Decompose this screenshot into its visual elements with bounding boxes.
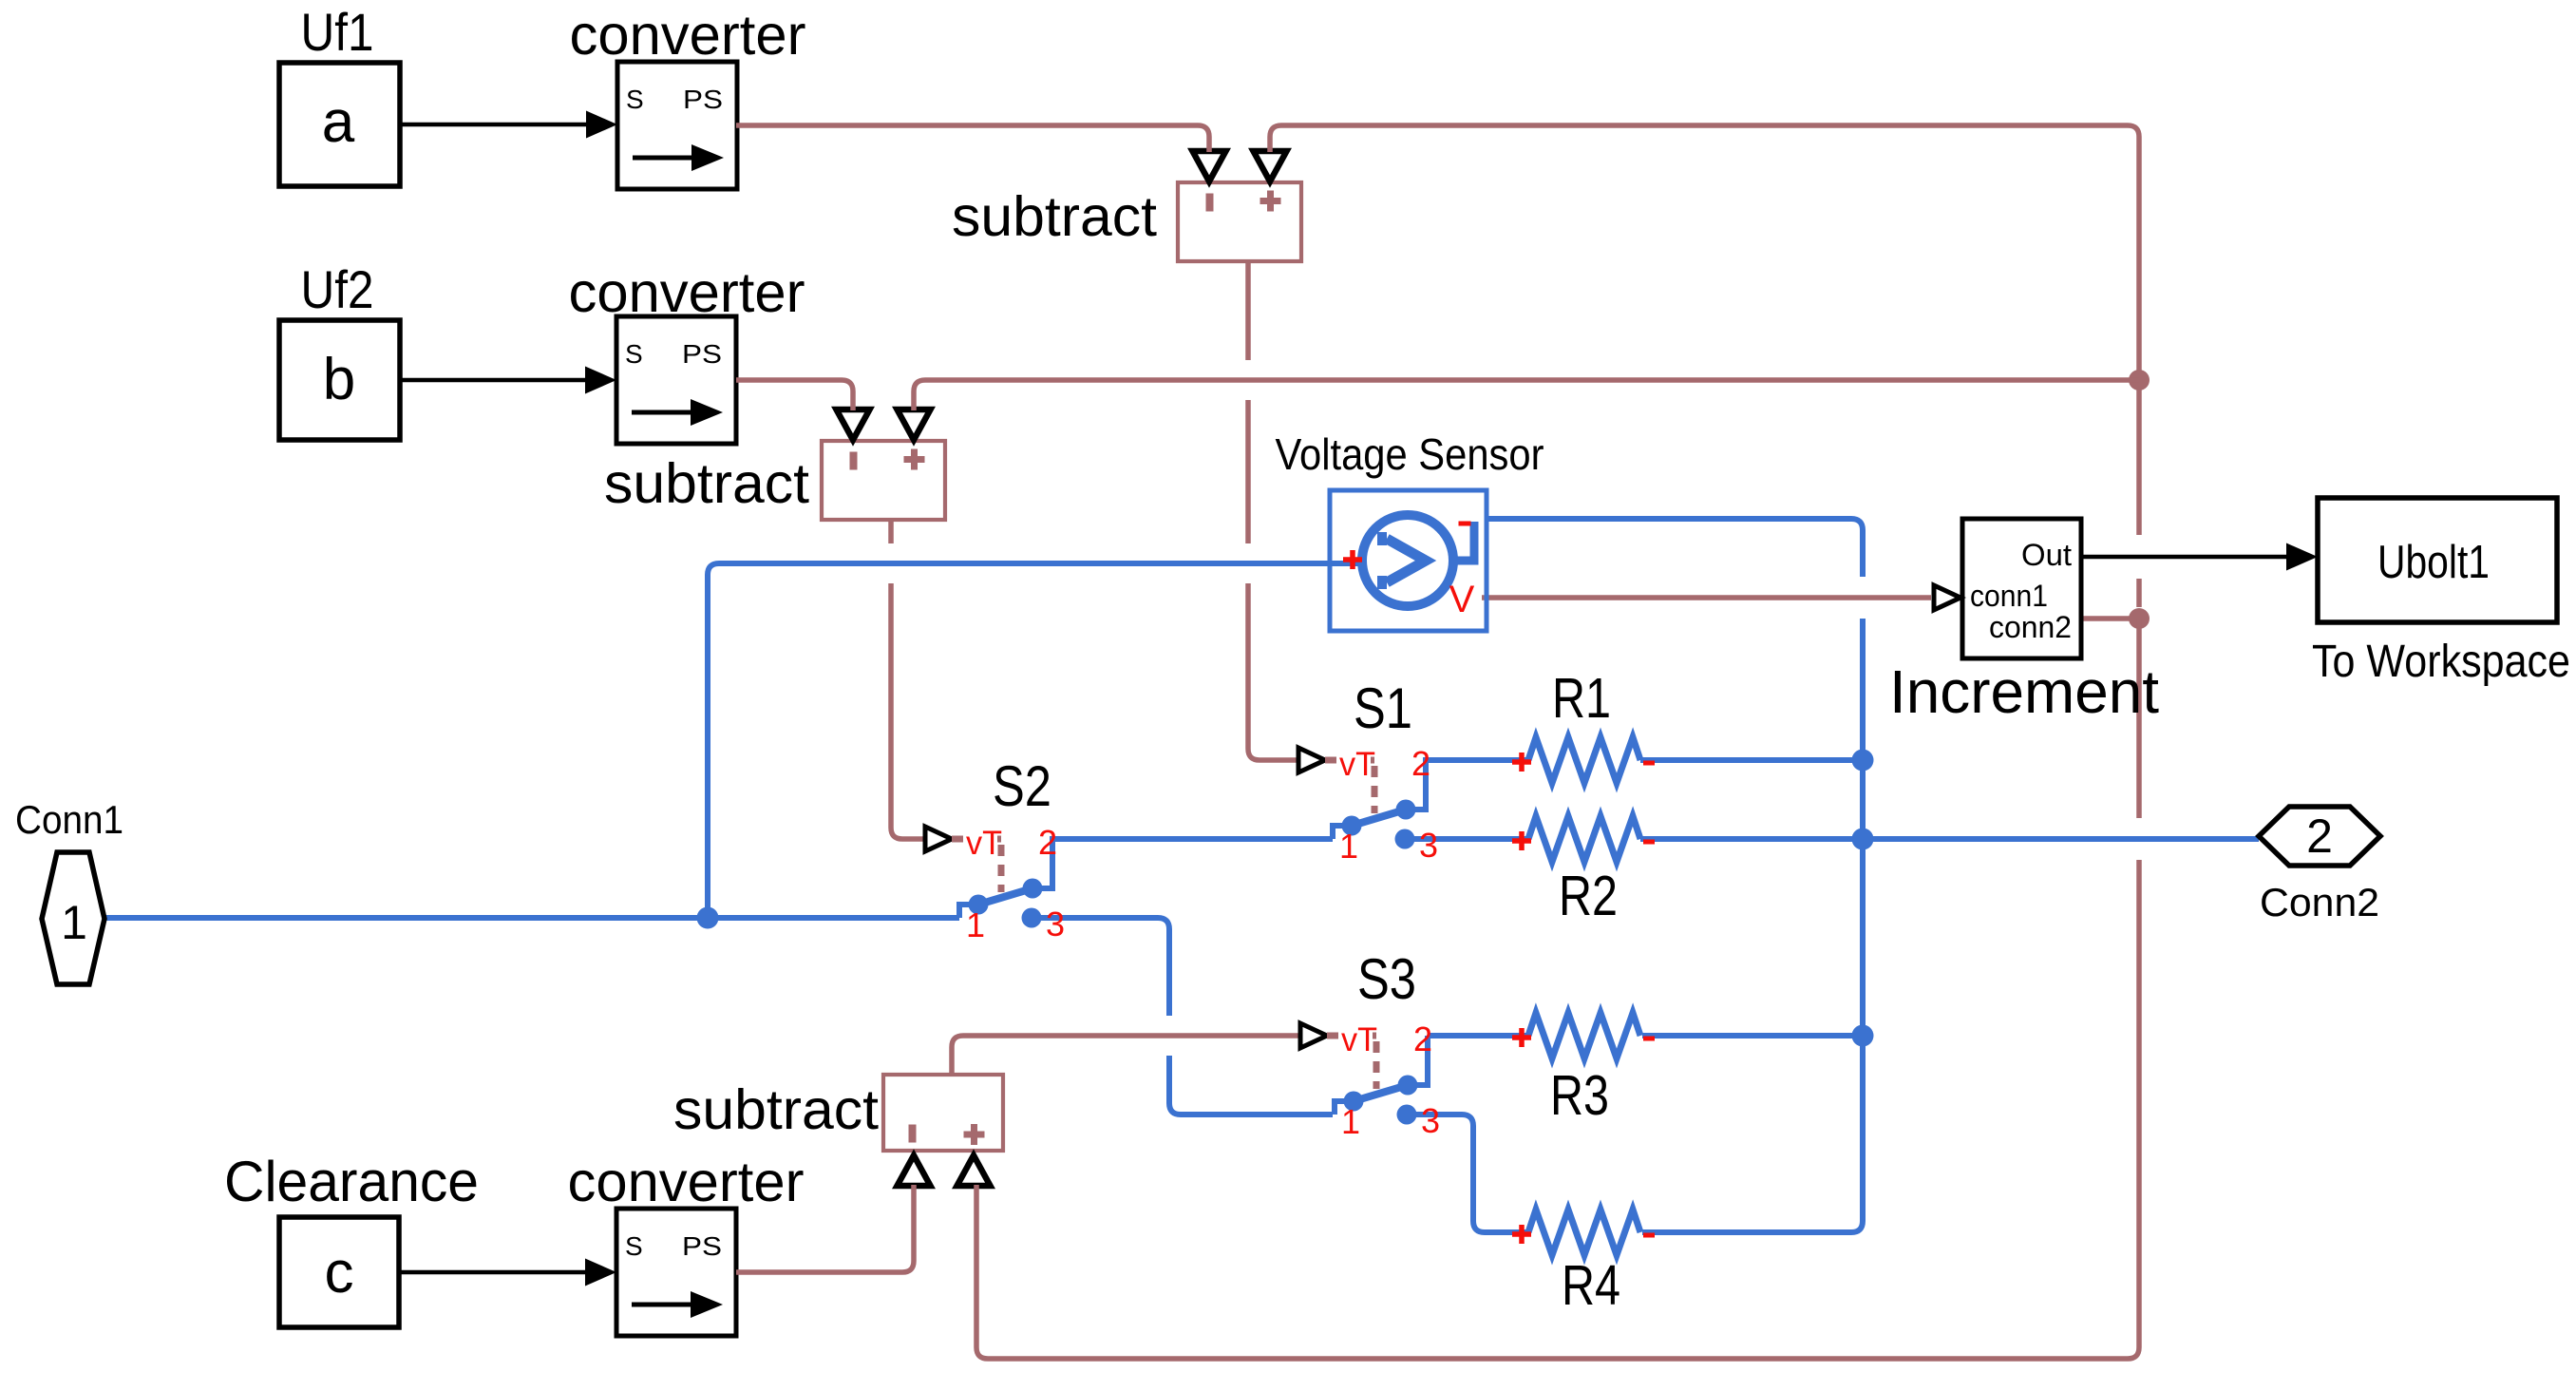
wire a to converter1 (signal) [400, 123, 589, 127]
S1 vT control input port triangle [1298, 748, 1325, 772]
Voltage Sensor - port label [1459, 522, 1471, 526]
wire net B: Increment conn2 stub [2081, 616, 2139, 621]
PS converter block converter1 [617, 62, 737, 189]
wire subtract3 output to S3 vT [952, 1036, 1300, 1075]
svg-text:Uf2: Uf2 [301, 259, 374, 319]
R1 - terminal label [1643, 761, 1655, 766]
wire R2 output to Conn2 [1640, 836, 2259, 842]
PS subtract block subtract2 [822, 441, 945, 520]
svg-text:PS: PS [682, 339, 722, 369]
svg-text:R2: R2 [1559, 865, 1618, 927]
svg-text:Conn2: Conn2 [2260, 880, 2379, 924]
svg-text:S: S [626, 85, 644, 114]
Voltage Sensor + port label [1343, 550, 1362, 569]
S3 vT control input port triangle [1300, 1023, 1327, 1048]
wire converter1 PS output to subtract1 minus input [736, 125, 1209, 152]
svg-text:Uf1: Uf1 [301, 2, 374, 62]
S3 port 3 terminal dot [1397, 1105, 1417, 1125]
wire net B branch to subtract2 plus input [914, 380, 2139, 410]
junction dot right bus at R3 [1852, 1025, 1874, 1047]
svg-text:Conn1: Conn1 [15, 797, 123, 842]
S1 port 2 wire riser [1406, 760, 1426, 810]
subtract2 plus input port triangle [898, 410, 931, 440]
svg-text:converter: converter [569, 261, 805, 324]
Increment conn1 input port triangle [1934, 585, 1960, 610]
junction dot at conn2 node [2129, 608, 2150, 629]
svg-text:2: 2 [2306, 810, 2333, 863]
PS converter block converter3 [616, 1209, 736, 1336]
wire subtract1 output to S1 vT (with crossover gaps) [1248, 261, 1298, 760]
wire Voltage Sensor V output to Increment conn1 [1482, 595, 1931, 600]
subtract2 minus input port triangle [837, 410, 870, 440]
svg-text:subtract: subtract [673, 1078, 879, 1141]
S1 vT dashed control linkage [1325, 757, 1344, 764]
svg-text:Clearance: Clearance [224, 1150, 479, 1213]
wire b to converter2 (signal) [400, 378, 588, 383]
svg-text:2: 2 [1038, 823, 1057, 862]
svg-text:S2: S2 [993, 754, 1051, 818]
svg-text:3: 3 [1046, 905, 1065, 943]
To Workspace block Ubolt1 [2318, 498, 2557, 622]
svg-text:To Workspace: To Workspace [2312, 637, 2570, 687]
switch S2 lever and pivot [959, 905, 971, 918]
wire R3 output to right bus [1642, 1033, 1863, 1038]
svg-text:3: 3 [1419, 826, 1438, 865]
svg-text:conn2: conn2 [1989, 610, 2072, 644]
svg-text:1: 1 [1339, 827, 1358, 866]
svg-text:vT: vT [966, 825, 1002, 862]
arrowhead into converter3 [585, 1259, 616, 1286]
switch S1 lever and pivot [1333, 826, 1344, 839]
svg-text:R4: R4 [1562, 1254, 1620, 1317]
wire R4 output up right bus to Voltage Sensor - (with crossover gap) [1487, 519, 1863, 1232]
svg-text:S: S [625, 1231, 643, 1261]
R2 + terminal label [1512, 831, 1531, 850]
constant block Uf2 (b) [279, 320, 400, 440]
svg-text:1: 1 [1341, 1102, 1360, 1141]
arrowhead into converter2 [585, 367, 616, 394]
PS converter block converter2 [616, 316, 736, 444]
svg-text:subtract: subtract [604, 452, 809, 515]
wire S2 port2 to S1 port1 [1032, 839, 1333, 888]
wire net B bottom feedback to subtract3 plus input [976, 1185, 2139, 1359]
subtract3 plus input port triangle [957, 1155, 991, 1186]
wire R1 output to right bus [1640, 757, 1863, 763]
wire converter3 PS output to subtract3 minus input [736, 1185, 914, 1272]
junction dot on Conn1 wire [697, 907, 719, 929]
svg-text:converter: converter [570, 4, 806, 67]
svg-text:a: a [322, 89, 355, 155]
svg-text:2: 2 [1413, 1019, 1432, 1058]
wire S1 port3 to R2 [1405, 836, 1528, 842]
arrowhead into converter1 [586, 111, 617, 139]
arrowhead into Ubolt1 [2286, 543, 2318, 571]
svg-text:S1: S1 [1354, 676, 1412, 740]
svg-text:c: c [325, 1240, 354, 1305]
wire subtract2 output to S2 vT (with crossover gap) [891, 520, 925, 839]
svg-text:Increment: Increment [1889, 657, 2159, 726]
R4 - terminal label [1643, 1233, 1655, 1238]
R3 + terminal label [1512, 1028, 1531, 1047]
svg-text:vT: vT [1341, 1021, 1377, 1058]
svg-text:b: b [323, 347, 355, 412]
port Conn1 hexagon [42, 852, 104, 984]
svg-text:S3: S3 [1357, 947, 1416, 1011]
R3 - terminal label [1643, 1037, 1655, 1041]
svg-text:R1: R1 [1552, 667, 1611, 730]
svg-text:R3: R3 [1550, 1064, 1609, 1127]
R4 + terminal label [1512, 1225, 1531, 1244]
constant block Clearance (c) [279, 1217, 399, 1327]
junction dot right bus at R1 [1852, 750, 1874, 772]
resistor R3 [1528, 1013, 1640, 1058]
S2 port 3 terminal dot [1022, 908, 1042, 928]
junction dot right bus at R2/Conn2 [1852, 829, 1874, 850]
R2 - terminal label [1643, 840, 1655, 845]
S1 port 3 terminal dot [1395, 829, 1415, 849]
svg-text:vT: vT [1339, 746, 1375, 783]
constant block Uf1 (a) [279, 63, 400, 186]
svg-text:S: S [625, 339, 643, 369]
S2 port 2 wire riser [1032, 839, 1052, 888]
svg-text:1: 1 [61, 896, 87, 949]
PS subtract block subtract3 [883, 1075, 1003, 1151]
svg-text:Voltage Sensor: Voltage Sensor [1276, 429, 1544, 479]
wire c to converter3 (signal) [399, 1270, 588, 1275]
svg-text:PS: PS [682, 1231, 722, 1261]
S2 vT dashed control linkage [952, 836, 971, 843]
wire net B vertical right bus with crossover gaps [1270, 125, 2139, 1347]
svg-text:Out: Out [2021, 538, 2072, 572]
svg-text:conn1: conn1 [1970, 579, 2048, 613]
subtract1 minus input port triangle [1193, 151, 1226, 181]
switch S3 lever and pivot [1335, 1101, 1346, 1115]
svg-text:PS: PS [683, 85, 723, 114]
junction dot net B at subtract2 branch [2129, 370, 2150, 391]
R1 + terminal label [1512, 753, 1531, 772]
Increment subsystem block [1962, 519, 2081, 658]
svg-text:3: 3 [1421, 1101, 1440, 1140]
wire Conn1 to S2 port1 (main electrical) [104, 915, 959, 921]
svg-text:2: 2 [1411, 744, 1430, 783]
resistor R2 [1528, 816, 1640, 862]
port Conn2 hexagon [2259, 807, 2380, 866]
wire converter2 PS output to subtract2 minus input [736, 380, 853, 410]
wire S3 port2 to R3 [1428, 1033, 1528, 1038]
PS subtract block subtract1 [1178, 182, 1301, 261]
S3 vT dashed control linkage [1327, 1033, 1346, 1039]
wire S3 port3 down to R4 [1407, 1115, 1528, 1232]
subtract3 minus input port triangle [898, 1155, 931, 1186]
svg-text:subtract: subtract [952, 185, 1157, 248]
svg-text:converter: converter [568, 1151, 805, 1213]
S3 port 2 wire riser [1408, 1036, 1428, 1085]
svg-text:Ubolt1: Ubolt1 [2377, 537, 2490, 588]
resistor R4 [1528, 1210, 1640, 1255]
wire S1 port2 to R1 [1406, 760, 1528, 810]
S2 vT control input port triangle [925, 827, 952, 851]
wire branch up to Voltage Sensor + port [708, 563, 1365, 918]
wire Increment Out to Ubolt1 (signal) [2081, 555, 2289, 560]
svg-text:V: V [1449, 579, 1475, 620]
resistor R1 [1528, 737, 1640, 783]
svg-text:1: 1 [966, 905, 985, 944]
Voltage Sensor block [1330, 490, 1487, 631]
wire S2 port3 to S3 port1 (with crossover gap) [1032, 918, 1333, 1115]
subtract1 plus input port triangle [1254, 151, 1287, 181]
